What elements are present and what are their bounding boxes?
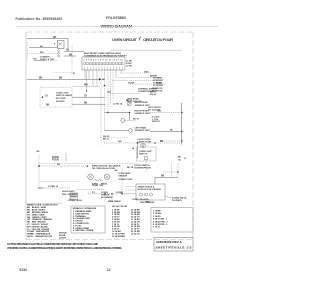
svg-text:SWITCH LAMPE: SWITCH LAMPE (56, 94, 73, 97)
svg-text:BK: BK (84, 102, 88, 104)
svg-text:BK 12: BK 12 (126, 100, 133, 102)
svg-text:ATTENTION: COUPEZ L'ALIMENTATI: ATTENTION: COUPEZ L'ALIMENTATION ELECTRI… (7, 247, 123, 250)
svg-text:L1 BK 1A: L1 BK 1A (113, 103, 123, 106)
svg-text:1A BK 120V: 1A BK 120V (92, 184, 104, 187)
svg-text:SURFACE UNIT: SURFACE UNIT (135, 129, 151, 132)
svg-text:ALLUMEUR: ALLUMEUR (101, 196, 113, 199)
svg-text:WIRE TABLE: WIRE TABLE (108, 200, 121, 203)
svg-text:SHEET/FEUILLE 1/2: SHEET/FEUILLE 1/2 (156, 245, 192, 249)
svg-text:BK: BK (178, 157, 182, 159)
svg-text:LF FRONT: LF FRONT (153, 85, 164, 87)
svg-text:SURFACE UNIT: SURFACE UNIT (135, 104, 151, 107)
svg-text:BK: BK (102, 79, 106, 81)
svg-text:9. GROUND / TERRE: 9. GROUND / TERRE (73, 230, 94, 232)
svg-text:GND: GND (145, 202, 150, 204)
svg-text:MODULE D'ALLUMAGE: MODULE D'ALLUMAGE (138, 188, 162, 191)
svg-text:5 18 BU WH - 2: 5 18 BU WH - 2 (153, 221, 169, 223)
svg-text:E232: E232 (20, 268, 28, 272)
svg-text:SURFACE UNIT: SURFACE UNIT (135, 112, 151, 115)
svg-text:RIGHT REAR: RIGHT REAR (135, 101, 148, 104)
svg-text:12: 12 (107, 268, 111, 272)
svg-text:LAMPE FOUR: LAMPE FOUR (138, 140, 152, 143)
svg-text:LATCH: LATCH (59, 236, 66, 239)
svg-text:OVEN LIGHT: OVEN LIGHT (56, 93, 69, 95)
svg-text:SYMBOLS / SYMBOLES: SYMBOLS / SYMBOLES (73, 208, 97, 210)
svg-text:BK: BK (160, 141, 164, 143)
svg-text:SONDE FOUR: SONDE FOUR (119, 179, 133, 181)
svg-text:14A: 14A (107, 91, 111, 94)
svg-text:MOTOR: MOTOR (152, 121, 160, 123)
svg-text:3 18 RD: 3 18 RD (153, 216, 161, 218)
svg-text:FGLGF386D: FGLGF386D (106, 16, 126, 20)
svg-text:NO GA COLOR: NO GA COLOR (112, 205, 127, 208)
svg-text:L2 RD: L2 RD (126, 66, 132, 68)
svg-text:7A: 7A (84, 94, 87, 97)
svg-text:BK: BK (46, 105, 50, 107)
svg-text:VALVE ASSY: VALVE ASSY (62, 190, 75, 193)
svg-text:SENSOR: SENSOR (119, 175, 128, 177)
svg-text:OVEN CIRCUIT: OVEN CIRCUIT (112, 37, 138, 42)
svg-text:6 18 OR RD - 3: 6 18 OR RD - 3 (153, 224, 168, 226)
svg-text:FOUR: FOUR (52, 159, 59, 162)
svg-text:CAUTION: DISCONNECT ELECTRICAL: CAUTION: DISCONNECT ELECTRICAL POWER BEF… (7, 243, 98, 246)
svg-text:WH 14: WH 14 (150, 93, 157, 96)
svg-text:SOCKET: SOCKET (56, 101, 65, 103)
svg-text:WH: WH (84, 85, 88, 87)
svg-text:BK: BK (39, 77, 43, 79)
svg-text:7 18 YL: 7 18 YL (153, 227, 161, 229)
svg-text:10A: 10A (157, 110, 161, 113)
svg-text:1 18 BK: 1 18 BK (153, 211, 161, 213)
svg-text:GN/YL - GREEN/YELLOW: GN/YL - GREEN/YELLOW (27, 236, 52, 238)
svg-text:WIRING DIAGRAM: WIRING DIAGRAM (101, 23, 133, 28)
svg-text:BK: BK (57, 164, 60, 166)
svg-text:LEFT REAR: LEFT REAR (135, 126, 147, 129)
svg-text:FUSE 1 A 120V: FUSE 1 A 120V (40, 58, 55, 61)
svg-text:1A: 1A (45, 94, 48, 97)
svg-text:BK 10: BK 10 (133, 119, 140, 121)
svg-text:STEAM VALVE: STEAM VALVE (172, 197, 187, 200)
svg-text:DOOR: DOOR (128, 82, 135, 84)
svg-text:BAKE IGNITOR / ALLUMEUR: BAKE IGNITOR / ALLUMEUR (92, 164, 121, 167)
svg-text:SOUPAPE: SOUPAPE (172, 199, 182, 202)
svg-text:1 2 3 4 5 6 7 8 9 10 11 12 13: 1 2 3 4 5 6 7 8 9 10 11 12 13 14 (84, 59, 123, 62)
svg-text:BK 1A: BK 1A (127, 166, 134, 169)
svg-text:12 18 WH/BK: 12 18 WH/BK (112, 236, 125, 238)
svg-text:BK: BK (119, 141, 123, 143)
svg-text:CIRCUIT DU FOUR: CIRCUIT DU FOUR (143, 37, 173, 42)
svg-text:GY/WH 14: GY/WH 14 (48, 185, 59, 188)
svg-text:INTERRUPTEUR: INTERRUPTEUR (135, 167, 152, 169)
svg-text:SPARK MODULE: SPARK MODULE (138, 185, 155, 188)
svg-text:DE CUISSON AU FOUR: DE CUISSON AU FOUR (92, 167, 115, 170)
svg-text:Publication No. 5995538263: Publication No. 5995538263 (16, 17, 63, 21)
svg-text:BK 12: BK 12 (103, 138, 110, 140)
svg-text:318048499 REV:A: 318048499 REV:A (156, 240, 183, 244)
svg-text:GND: GND (144, 71, 149, 73)
svg-text:SWITCH: SWITCH (139, 153, 148, 155)
svg-text:DU FOUR: DU FOUR (56, 98, 66, 100)
svg-text:BK: BK (37, 151, 41, 153)
svg-text:BK: BK (161, 176, 165, 178)
svg-text:4 18 GY BK - 1: 4 18 GY BK - 1 (153, 218, 168, 221)
svg-text:BK: BK (170, 130, 174, 132)
svg-text:CODE COULEUR: CODE COULEUR (132, 199, 149, 201)
svg-text:GY/WH 14 GA: GY/WH 14 GA (68, 199, 82, 202)
svg-text:2 18 WH: 2 18 WH (153, 213, 162, 215)
svg-text:23 14 GY: 23 14 GY (131, 232, 140, 235)
svg-text:BK: BK (115, 170, 118, 172)
svg-text:WIRING CODE / CODE DE FILS: WIRING CODE / CODE DE FILS (27, 204, 58, 206)
